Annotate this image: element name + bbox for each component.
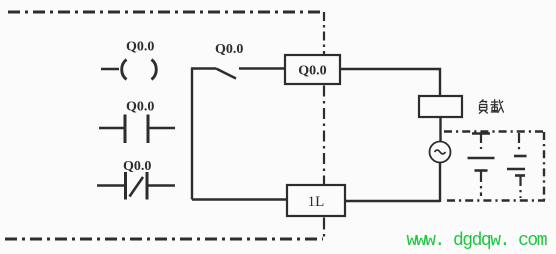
switch Q0.0 [191,69,285,79]
wire load box to AC source [439,117,441,142]
svg-text:Q0.0: Q0.0 [126,100,154,115]
coil Q0.0 [101,60,156,80]
output box Q0.0 [285,55,340,84]
other-outputs dashed frame top edge [444,130,545,132]
svg-text:Q0.0: Q0.0 [126,40,154,55]
PLC boundary bottom dash-dot line [5,238,323,241]
left rail wire [191,69,193,200]
other-outputs dashed frame bottom edge [447,199,545,201]
load label 负载 (drawn glyphs) [479,99,504,113]
output contact pair B [507,133,527,198]
svg-text:Q0.0: Q0.0 [123,159,151,174]
output contact pair A [468,134,495,197]
bottom wire from 1L box to load branch [192,200,440,202]
other-outputs dashed frame right edge [543,132,545,200]
AC source [430,142,451,163]
svg-text:Q0.0: Q0.0 [298,64,326,79]
wire from output box to load branch [339,69,440,96]
NC contact Q0.0 [97,172,175,200]
svg-text:1L: 1L [308,194,325,210]
svg-text:Q0.0: Q0.0 [215,42,243,57]
load box [419,96,462,117]
PLC boundary vertical dash-dot line [323,12,325,55]
wire AC source to bottom wire [439,163,441,203]
PLC boundary top dash-dot line [8,11,322,14]
common terminal box 1L [287,185,345,216]
NO contact Q0.0 [99,115,175,144]
svg-text:www. dgdqw. com: www. dgdqw. com [407,231,547,251]
